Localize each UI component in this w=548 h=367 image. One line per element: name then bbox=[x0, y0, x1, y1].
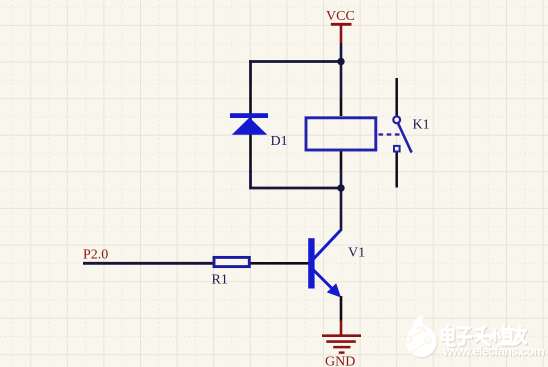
svg-text:R1: R1 bbox=[212, 273, 228, 288]
svg-text:P2.0: P2.0 bbox=[83, 248, 108, 263]
svg-text:www.elecfans.com: www.elecfans.com bbox=[442, 344, 545, 358]
svg-text:VCC: VCC bbox=[326, 9, 355, 24]
svg-text:GND: GND bbox=[325, 355, 355, 367]
svg-text:V1: V1 bbox=[348, 246, 365, 261]
svg-text:D1: D1 bbox=[271, 134, 288, 149]
svg-text:K1: K1 bbox=[413, 118, 430, 133]
